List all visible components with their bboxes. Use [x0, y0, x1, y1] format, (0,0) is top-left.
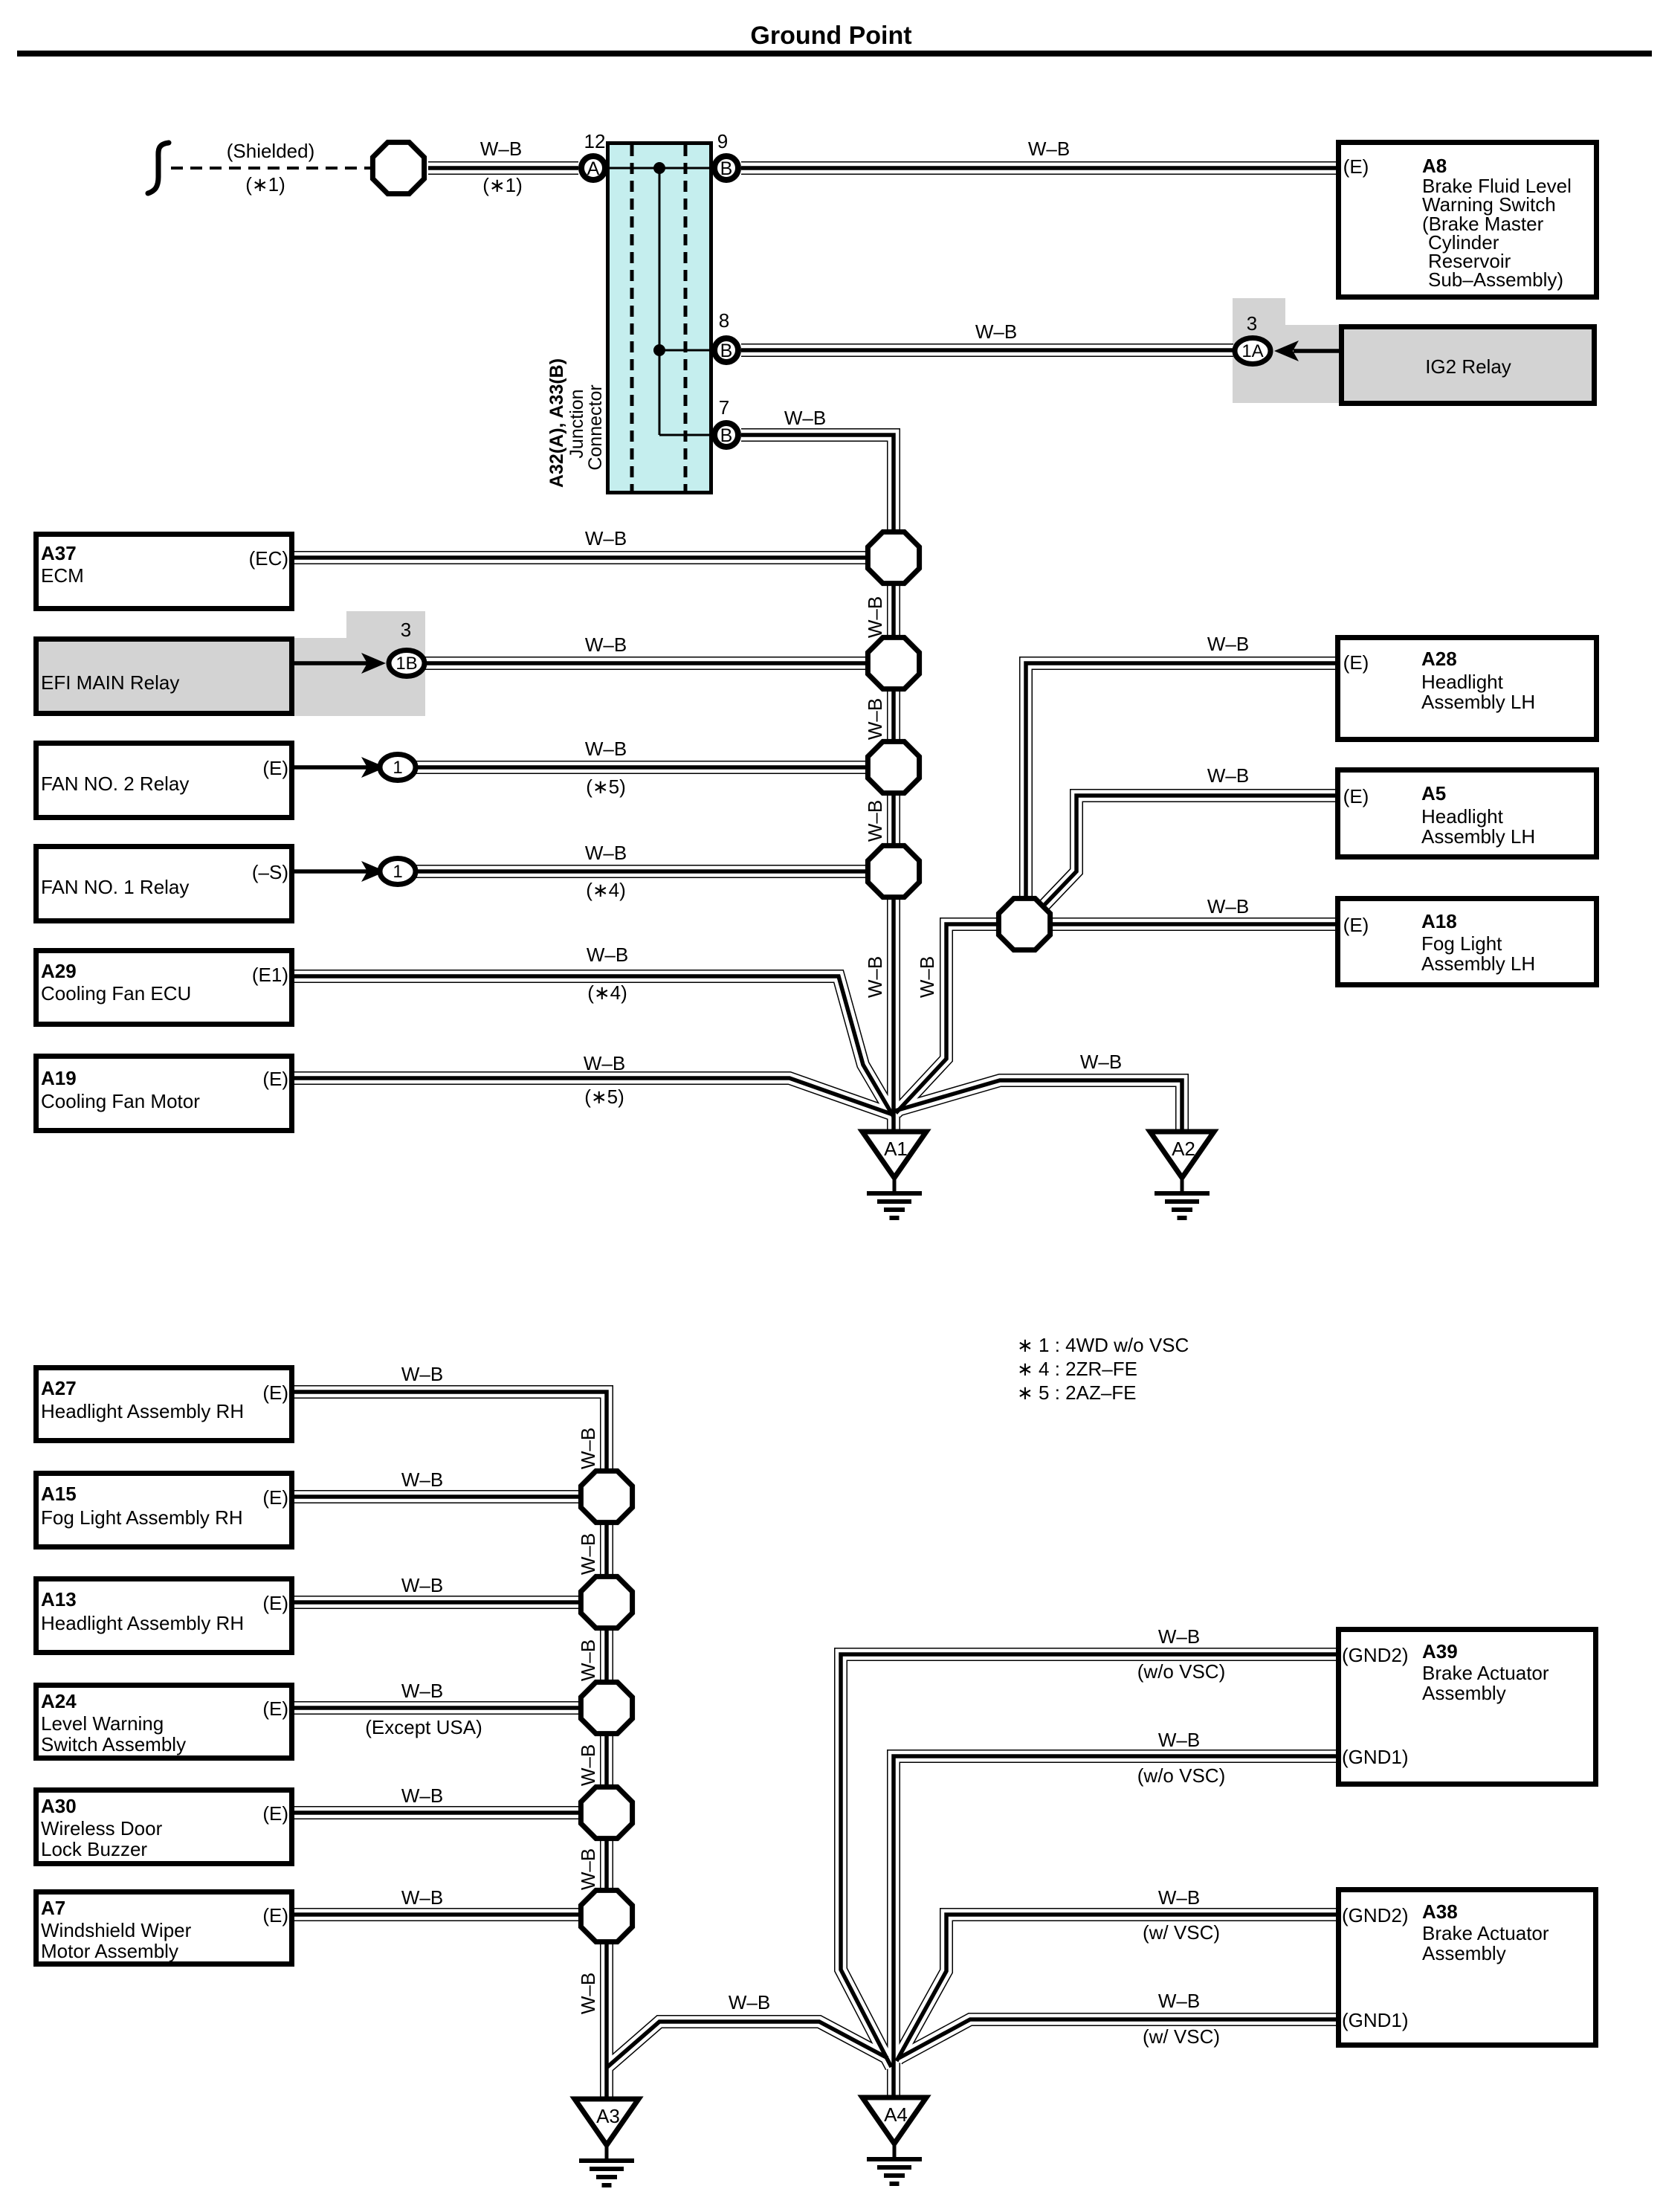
svg-text:W–B: W–B — [585, 527, 627, 549]
svg-text:W–B: W–B — [1158, 1625, 1200, 1648]
svg-text:W–B: W–B — [480, 138, 522, 160]
svg-text:(∗5): (∗5) — [584, 1086, 624, 1108]
svg-text:Headlight Assembly RH: Headlight Assembly RH — [41, 1612, 244, 1634]
svg-text:W–B: W–B — [585, 633, 627, 656]
svg-text:(∗1): (∗1) — [245, 173, 285, 196]
svg-text:Junction: Junction — [566, 389, 587, 458]
svg-text:(w/ VSC): (w/ VSC) — [1143, 1921, 1220, 1944]
svg-text:(E): (E) — [262, 1592, 288, 1614]
svg-text:(–S): (–S) — [252, 861, 288, 883]
svg-text:A13: A13 — [41, 1588, 77, 1610]
svg-text:Assembly LH: Assembly LH — [1421, 825, 1535, 848]
svg-text:A15: A15 — [41, 1483, 77, 1505]
svg-text:Headlight: Headlight — [1421, 671, 1504, 693]
svg-text:A: A — [587, 158, 600, 179]
svg-text:A5: A5 — [1421, 782, 1446, 804]
svg-text:W–B: W–B — [975, 320, 1017, 343]
svg-text:(E1): (E1) — [252, 964, 288, 986]
svg-text:(∗5): (∗5) — [586, 776, 626, 798]
svg-text:A24: A24 — [41, 1690, 77, 1712]
svg-text:∗ 4 : 2ZR–FE: ∗ 4 : 2ZR–FE — [1017, 1358, 1137, 1380]
svg-text:Lock Buzzer: Lock Buzzer — [41, 1838, 147, 1860]
svg-text:3: 3 — [401, 619, 411, 641]
svg-text:W–B: W–B — [401, 1574, 443, 1596]
svg-text:3: 3 — [1247, 312, 1257, 335]
svg-text:A28: A28 — [1421, 648, 1457, 670]
svg-text:Motor Assembly: Motor Assembly — [41, 1940, 178, 1962]
svg-text:(GND1): (GND1) — [1342, 1746, 1409, 1768]
svg-text:(E): (E) — [1343, 651, 1369, 674]
svg-text:A38: A38 — [1422, 1900, 1458, 1923]
svg-text:W–B: W–B — [1158, 1729, 1200, 1751]
svg-text:(GND2): (GND2) — [1342, 1644, 1409, 1666]
svg-text:A18: A18 — [1421, 910, 1457, 932]
svg-text:FAN NO. 1 Relay: FAN NO. 1 Relay — [41, 876, 189, 898]
svg-text:W–B: W–B — [729, 1991, 770, 2013]
svg-text:Sub–Assembly): Sub–Assembly) — [1428, 268, 1563, 291]
svg-text:W–B: W–B — [577, 1744, 599, 1786]
svg-text:12: 12 — [584, 130, 606, 152]
svg-text:Fog Light: Fog Light — [1421, 932, 1502, 955]
svg-text:W–B: W–B — [1207, 764, 1249, 787]
svg-text:Assembly LH: Assembly LH — [1421, 952, 1535, 975]
svg-text:W–B: W–B — [1028, 138, 1070, 160]
svg-text:Brake Actuator: Brake Actuator — [1422, 1922, 1549, 1944]
svg-text:IG2 Relay: IG2 Relay — [1425, 355, 1511, 378]
svg-text:(E): (E) — [262, 757, 288, 779]
svg-text:1A: 1A — [1241, 341, 1263, 361]
svg-text:(E): (E) — [262, 1068, 288, 1090]
svg-text:(GND2): (GND2) — [1342, 1904, 1409, 1926]
svg-text:A8: A8 — [1422, 155, 1447, 177]
svg-text:Switch Assembly: Switch Assembly — [41, 1733, 186, 1755]
svg-text:∗ 1 : 4WD w/o VSC: ∗ 1 : 4WD w/o VSC — [1017, 1334, 1189, 1356]
svg-text:∗ 5 : 2AZ–FE: ∗ 5 : 2AZ–FE — [1017, 1381, 1137, 1404]
svg-text:Fog Light Assembly RH: Fog Light Assembly RH — [41, 1506, 243, 1529]
svg-text:W–B: W–B — [401, 1363, 443, 1385]
svg-text:A27: A27 — [41, 1377, 77, 1399]
svg-text:1: 1 — [393, 862, 402, 882]
svg-text:(w/o VSC): (w/o VSC) — [1137, 1764, 1225, 1787]
svg-text:EFI MAIN Relay: EFI MAIN Relay — [41, 671, 179, 694]
svg-text:(E): (E) — [262, 1697, 288, 1720]
svg-text:W–B: W–B — [864, 596, 886, 638]
svg-text:8: 8 — [719, 309, 729, 332]
svg-text:B: B — [720, 341, 733, 361]
svg-text:W–B: W–B — [577, 1848, 599, 1890]
svg-text:W–B: W–B — [577, 1428, 599, 1469]
svg-text:A4: A4 — [884, 2103, 908, 2126]
svg-text:W–B: W–B — [864, 698, 886, 740]
svg-text:W–B: W–B — [1207, 895, 1249, 918]
svg-text:W–B: W–B — [577, 1973, 599, 2014]
svg-text:Connector: Connector — [585, 384, 606, 470]
svg-text:B: B — [720, 158, 733, 179]
svg-text:9: 9 — [717, 130, 728, 152]
svg-text:(GND1): (GND1) — [1342, 2009, 1409, 2031]
svg-text:(E): (E) — [262, 1904, 288, 1926]
svg-text:(E): (E) — [262, 1486, 288, 1509]
svg-text:A39: A39 — [1422, 1640, 1458, 1663]
svg-text:W–B: W–B — [577, 1533, 599, 1575]
svg-text:(Except USA): (Except USA) — [365, 1716, 482, 1738]
svg-text:(E): (E) — [262, 1802, 288, 1825]
svg-text:7: 7 — [719, 396, 729, 419]
svg-text:(∗4): (∗4) — [586, 879, 626, 901]
svg-text:Level Warning: Level Warning — [41, 1712, 164, 1735]
svg-text:W–B: W–B — [916, 956, 938, 998]
svg-text:Headlight: Headlight — [1421, 805, 1504, 828]
svg-text:1B: 1B — [395, 654, 417, 674]
svg-text:W–B: W–B — [864, 800, 886, 842]
svg-text:A2: A2 — [1172, 1138, 1195, 1160]
svg-text:A3: A3 — [596, 2105, 620, 2127]
svg-text:(∗4): (∗4) — [587, 981, 627, 1004]
svg-text:(w/ VSC): (w/ VSC) — [1143, 2025, 1220, 2048]
svg-text:W–B: W–B — [401, 1886, 443, 1909]
svg-text:A32(A), A33(B): A32(A), A33(B) — [546, 358, 567, 488]
svg-text:A19: A19 — [41, 1067, 77, 1089]
svg-text:FAN NO. 2 Relay: FAN NO. 2 Relay — [41, 773, 189, 795]
svg-text:Cooling Fan ECU: Cooling Fan ECU — [41, 982, 191, 1005]
svg-text:(E): (E) — [262, 1381, 288, 1404]
svg-text:Cooling Fan Motor: Cooling Fan Motor — [41, 1090, 200, 1112]
svg-text:Ground Point: Ground Point — [750, 22, 911, 50]
svg-text:W–B: W–B — [585, 842, 627, 864]
svg-text:A1: A1 — [884, 1138, 908, 1160]
svg-text:A30: A30 — [41, 1795, 77, 1817]
svg-text:W–B: W–B — [864, 956, 886, 998]
svg-text:W–B: W–B — [1158, 1886, 1200, 1909]
svg-text:ECM: ECM — [41, 564, 84, 587]
svg-text:Headlight Assembly RH: Headlight Assembly RH — [41, 1400, 244, 1422]
svg-text:Assembly: Assembly — [1422, 1942, 1506, 1964]
svg-text:B: B — [720, 425, 733, 446]
svg-text:W–B: W–B — [577, 1639, 599, 1681]
svg-text:A29: A29 — [41, 960, 77, 982]
svg-text:W–B: W–B — [784, 407, 826, 429]
svg-text:W–B: W–B — [1158, 1990, 1200, 2012]
svg-text:W–B: W–B — [584, 1052, 625, 1074]
svg-text:Assembly LH: Assembly LH — [1421, 691, 1535, 713]
svg-text:(E): (E) — [1343, 914, 1369, 936]
svg-text:(Shielded): (Shielded) — [227, 140, 315, 162]
svg-text:A37: A37 — [41, 542, 77, 564]
svg-text:Windshield Wiper: Windshield Wiper — [41, 1919, 192, 1941]
svg-text:W–B: W–B — [1080, 1051, 1122, 1073]
svg-text:(∗1): (∗1) — [482, 174, 523, 196]
svg-text:W–B: W–B — [585, 738, 627, 760]
svg-text:W–B: W–B — [587, 944, 628, 966]
svg-text:W–B: W–B — [401, 1468, 443, 1491]
svg-text:W–B: W–B — [1207, 633, 1249, 655]
svg-text:W–B: W–B — [401, 1680, 443, 1702]
svg-text:(w/o VSC): (w/o VSC) — [1137, 1660, 1225, 1683]
svg-text:A7: A7 — [41, 1897, 65, 1919]
svg-text:(EC): (EC) — [249, 547, 288, 570]
svg-text:Assembly: Assembly — [1422, 1682, 1506, 1704]
svg-text:(E): (E) — [1343, 785, 1369, 807]
svg-text:(E): (E) — [1343, 155, 1369, 178]
svg-text:Wireless Door: Wireless Door — [41, 1817, 163, 1839]
svg-text:Brake Actuator: Brake Actuator — [1422, 1662, 1549, 1684]
svg-text:W–B: W–B — [401, 1784, 443, 1807]
svg-text:1: 1 — [393, 758, 402, 778]
